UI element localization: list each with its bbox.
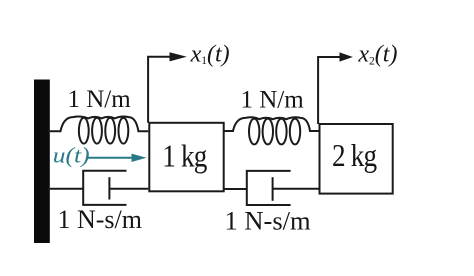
svg-text:1 N-s/m: 1 N-s/m [225, 206, 312, 236]
svg-text:x1(t): x1(t) [190, 41, 230, 67]
svg-text:1 N/m: 1 N/m [241, 86, 305, 113]
svg-text:u(t): u(t) [53, 143, 90, 168]
svg-text:2 kg: 2 kg [332, 139, 377, 173]
svg-text:1 kg: 1 kg [162, 139, 207, 173]
svg-text:1 N/m: 1 N/m [68, 86, 132, 113]
svg-text:1 N-s/m: 1 N-s/m [58, 205, 143, 234]
svg-text:x2(t): x2(t) [357, 42, 397, 68]
